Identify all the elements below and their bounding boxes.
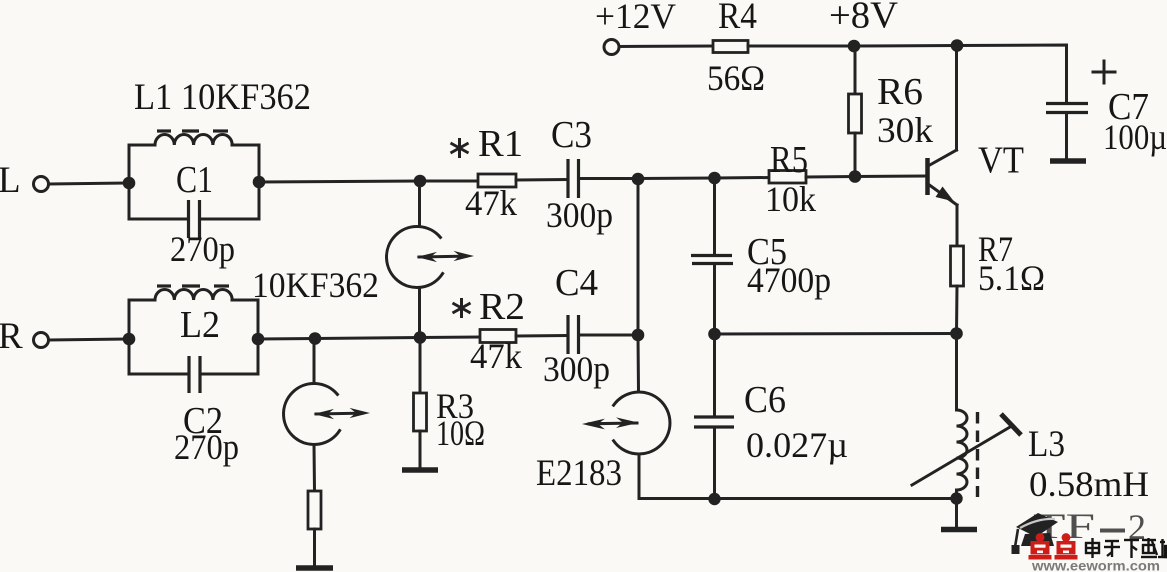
svg-text:+8V: +8V: [829, 0, 899, 37]
svg-text:L: L: [0, 160, 21, 201]
svg-text:www.eeworm.com: www.eeworm.com: [1031, 558, 1160, 572]
svg-text:C4: C4: [555, 262, 598, 304]
svg-text:R4: R4: [718, 0, 757, 37]
svg-text:L2: L2: [180, 304, 220, 346]
svg-text:47k: 47k: [470, 336, 522, 376]
svg-text:VT: VT: [978, 140, 1024, 182]
svg-text:300p: 300p: [546, 195, 613, 235]
svg-text:56Ω: 56Ω: [707, 58, 765, 98]
svg-text:5.1Ω: 5.1Ω: [978, 258, 1045, 298]
svg-text:R2: R2: [479, 286, 525, 328]
svg-text:+12V: +12V: [595, 0, 676, 36]
svg-text:R5: R5: [770, 139, 808, 181]
svg-text:R6: R6: [877, 71, 923, 113]
svg-text:10KF362: 10KF362: [252, 265, 379, 305]
svg-text:270p: 270p: [170, 229, 235, 269]
svg-text:L3: L3: [1028, 424, 1065, 465]
svg-text:R: R: [0, 316, 23, 357]
svg-text:C1: C1: [176, 159, 213, 201]
svg-text:R1: R1: [478, 123, 523, 165]
svg-text:E2183: E2183: [536, 453, 622, 494]
svg-text:10Ω: 10Ω: [436, 413, 485, 453]
svg-text:30k: 30k: [877, 110, 933, 150]
svg-text:4700p: 4700p: [747, 260, 831, 300]
svg-text:10k: 10k: [765, 179, 816, 219]
svg-text:100µ: 100µ: [1103, 117, 1167, 157]
svg-text:0.58mH: 0.58mH: [1029, 464, 1149, 504]
svg-text:C6: C6: [744, 379, 786, 421]
svg-text:270p: 270p: [174, 427, 239, 467]
svg-text:L1 10KF362: L1 10KF362: [134, 77, 311, 118]
svg-text:300p: 300p: [543, 349, 610, 389]
svg-text:C3: C3: [551, 114, 592, 156]
svg-text:0.027µ: 0.027µ: [746, 425, 848, 465]
svg-text:47k: 47k: [465, 183, 517, 223]
